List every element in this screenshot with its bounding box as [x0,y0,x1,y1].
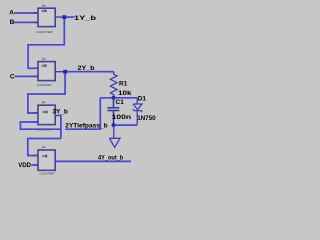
wire 1Y_b stub [66,16,74,18]
gate U3 [34,102,61,132]
node 4Y_out_b [98,155,123,162]
wire U3 out down [60,115,62,138]
resistor R1 [110,72,117,98]
node 1Y_b [74,15,96,22]
wire B to U1 [13,21,38,23]
wire U3 self feedback [20,122,61,129]
wire feedback U1 out to U2 in [28,19,64,68]
wire 4Y_out_b [56,160,131,162]
wire VDD to U4 [31,164,38,166]
node dot top [112,96,116,100]
wire A to U1 [14,12,38,14]
svg-text:3Y_b: 3Y_b [52,109,68,116]
node C [10,74,15,81]
wire C to U2 [15,75,38,77]
svg-text:4Y_out_b: 4Y_out_b [98,155,123,162]
svg-text:COUNTER: COUNTER [36,30,53,34]
svg-text:R1: R1 [119,81,128,88]
svg-text:D1: D1 [138,96,147,103]
wire feedback U2 out to U3 in [28,74,65,114]
svg-text:10k: 10k [118,90,132,97]
value 100n [112,114,132,121]
node 2Y_b [78,65,95,72]
wire 2YTiefpass_b to RC node [65,98,100,129]
wire 2Y_b to R1 [67,71,114,73]
label R1 [119,81,128,88]
node VDD [18,162,31,169]
node 3Y_b [52,109,68,116]
svg-text:COUNTER: COUNTER [40,172,55,176]
svg-text:C1: C1 [116,99,125,106]
ground [109,125,120,147]
node dot bottom [112,123,116,127]
svg-text:2YTiefpass_b: 2YTiefpass_b [65,122,108,129]
svg-text:COUNTER: COUNTER [37,83,52,87]
gate U2 [34,58,64,87]
label C1 [116,99,125,106]
label D1 [138,96,147,103]
wire feedback U3 to U4 in [28,139,61,156]
svg-text:100n: 100n [112,114,132,121]
node A [9,10,14,17]
node 2YTiefpass_b [65,122,108,129]
junction 2Y [63,70,67,74]
value 10k [118,90,132,97]
capacitor C1 [107,98,119,125]
wire bottom rail [114,124,138,126]
svg-text:VDD: VDD [18,162,31,169]
gate U4 [34,146,57,175]
gate U1 [34,5,63,34]
junction 1Y [62,15,66,19]
diode D1 zener [133,98,142,125]
svg-text:C: C [10,74,15,81]
value 1N750 [137,115,156,122]
svg-text:1Y_b: 1Y_b [74,15,96,22]
wire node rail [100,97,137,99]
node B [10,19,15,26]
svg-text:1N750: 1N750 [137,115,156,122]
svg-text:A: A [9,10,14,17]
